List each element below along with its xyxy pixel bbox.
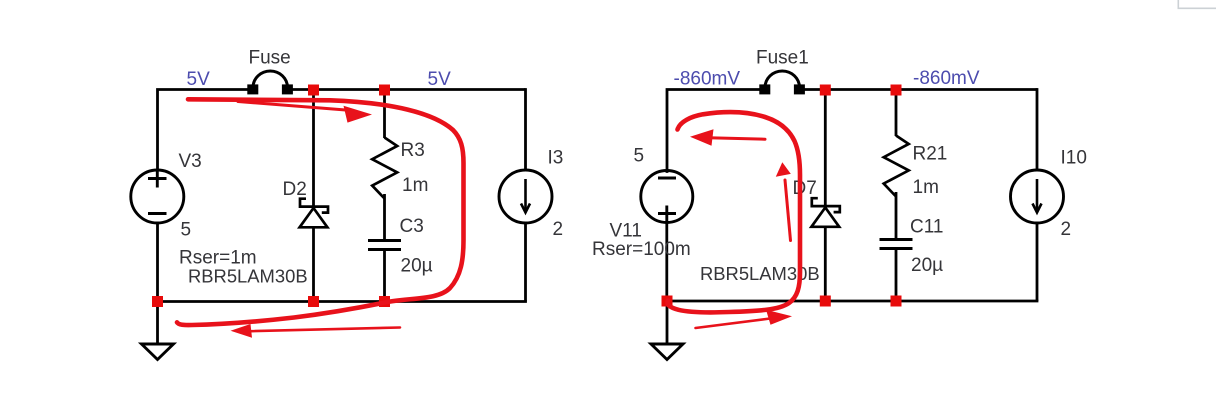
node: right top R21 junction (891, 85, 902, 96)
wire: V11 bottom lead (665, 223, 668, 302)
node: left top R3 junction (379, 85, 390, 96)
resistor R21 zigzag (884, 136, 909, 197)
svg-text:C11: C11 (910, 217, 943, 238)
fuse Fuse terminal right (283, 86, 291, 93)
schematic text labels (179, 48, 1087, 287)
wire: C11 bottom lead (895, 249, 898, 302)
wire: right circuit top rail left segment (667, 90, 761, 173)
wire: right circuit drop to I10 (1036, 88, 1039, 170)
annotation: left top arrow shaft (238, 102, 352, 111)
voltage source V3 circle (131, 170, 184, 223)
V11 minus sign (top) (658, 177, 676, 180)
zener diode D7 triangle (811, 208, 839, 227)
node junction squares (red) (152, 85, 902, 308)
annotation: right up-pointing arrowhead (776, 162, 791, 177)
wire: V3 bottom lead (156, 223, 159, 302)
wire: left circuit top rail left segment (158, 90, 249, 172)
svg-text:Fuse1: Fuse1 (756, 48, 809, 69)
svg-text:C3: C3 (400, 216, 424, 237)
capacitor C11 plates (880, 240, 913, 249)
annotation: right big loop stroke (667, 112, 800, 312)
wire: R21-C11 link (895, 192, 898, 240)
wire: D2 top lead (312, 90, 315, 207)
ground symbol left (142, 344, 174, 360)
wire: left circuit top rail right segment (291, 88, 526, 91)
wire: D7 bottom lead (824, 227, 827, 301)
wire: R3-C3 link (383, 194, 386, 241)
annotation: left big loop stroke (177, 99, 464, 325)
annotation: right bottom arrowhead (766, 310, 792, 325)
svg-text:5V: 5V (428, 69, 452, 90)
svg-text:RBR5LAM30B: RBR5LAM30B (188, 266, 308, 287)
node: left bottom D2 junction (308, 296, 319, 307)
svg-text:2: 2 (553, 219, 564, 240)
fuse Fuse (left) arc (253, 71, 288, 88)
svg-text:-860mV: -860mV (674, 69, 741, 90)
fuse Fuse1 terminal left (761, 86, 769, 93)
svg-text:D2: D2 (283, 179, 307, 200)
wire: C3 bottom lead (383, 250, 386, 302)
svg-text:1m: 1m (913, 177, 939, 198)
annotation: left top arrowhead (344, 106, 373, 123)
node: left bottom ground junction (152, 296, 163, 307)
voltage source V11 circle (641, 171, 693, 223)
zener diode D2 cathode bar (300, 199, 328, 213)
svg-text:D7: D7 (793, 178, 817, 199)
fuse Fuse terminal left (249, 86, 257, 93)
svg-text:-860mV: -860mV (913, 68, 980, 89)
wire: left circuit right drop to I3 (524, 88, 527, 170)
I3 arrow (521, 179, 530, 213)
wire: R21 top lead (895, 90, 898, 137)
wire: right circuit top rail right segment (803, 88, 1038, 91)
fuse Fuse1 arc (765, 71, 800, 88)
svg-text:Rser=100m: Rser=100m (592, 239, 691, 260)
svg-text:R21: R21 (913, 144, 948, 165)
capacitor C3 plates (368, 241, 401, 250)
wire: D2 bottom lead (312, 228, 315, 302)
svg-text:2: 2 (1061, 219, 1072, 240)
gray window corner mark top right (1178, 0, 1216, 8)
zener diode D7 cathode bar (812, 198, 840, 212)
wire: right circuit bottom rail (666, 300, 1039, 303)
svg-text:1m: 1m (402, 175, 428, 196)
annotation: right left-pointing arrowhead (690, 129, 714, 146)
svg-text:5: 5 (181, 220, 192, 241)
V11 plus sign (bottom) (658, 206, 676, 222)
resistor R3 zigzag (372, 138, 397, 199)
annotation: left bottom arrowhead (231, 324, 253, 338)
ground symbol right (651, 344, 683, 360)
red annotations (177, 99, 800, 337)
zener diode D2 triangle (300, 208, 328, 227)
wire: left circuit bottom rail (156, 300, 527, 303)
svg-text:R3: R3 (401, 140, 425, 161)
V3 plus sign (148, 170, 167, 188)
annotation: right up-pointing arrow shaft (785, 180, 791, 241)
I10 arrow (1033, 179, 1042, 213)
svg-text:5V: 5V (187, 69, 211, 90)
node: left bottom C3 junction (379, 296, 390, 307)
current source I10 circle (1011, 170, 1064, 223)
wire: D7 top lead (824, 90, 827, 207)
wire: I10 bottom lead (1036, 223, 1039, 302)
svg-text:I10: I10 (1061, 148, 1087, 169)
node: left top D2 junction (308, 85, 319, 96)
current source I3 circle (499, 170, 552, 223)
wire: ground lead right (666, 301, 669, 344)
V3 minus sign (148, 212, 167, 215)
svg-text:Fuse: Fuse (249, 48, 291, 69)
annotation: right left-pointing arrow shaft (708, 138, 765, 139)
svg-text:I3: I3 (548, 148, 564, 169)
annotation: right bottom arrow shaft (696, 319, 771, 329)
fuse Fuse1 terminal right (795, 86, 803, 93)
svg-text:V3: V3 (179, 151, 202, 172)
svg-text:5: 5 (634, 146, 645, 167)
wire: ground lead left (156, 302, 159, 345)
node: right top D7 junction (820, 85, 831, 96)
svg-text:20µ: 20µ (401, 256, 433, 277)
annotation: left bottom arrow shaft (250, 328, 400, 332)
node: right bottom ground junction (662, 296, 673, 307)
wire: I3 bottom lead (524, 223, 527, 302)
node: right bottom C11 junction (891, 296, 902, 307)
svg-text:20µ: 20µ (911, 255, 943, 276)
wire: R3 top lead (383, 90, 386, 139)
node: right bottom D7 junction (820, 296, 831, 307)
